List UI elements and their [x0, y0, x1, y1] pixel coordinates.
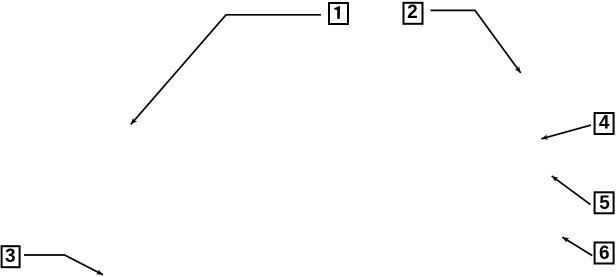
- callout box 1: [329, 3, 348, 24]
- svg-text:5: 5: [599, 193, 610, 214]
- svg-text:4: 4: [599, 113, 610, 134]
- callout arrow 3: [24, 255, 103, 275]
- callout arrow 2: [431, 10, 521, 73]
- svg-text:6: 6: [599, 243, 610, 264]
- callout arrow 1: [131, 15, 321, 125]
- callout arrow 6: [562, 237, 592, 256]
- callout box 4: [595, 113, 614, 134]
- callout box 3: [2, 246, 20, 267]
- callout arrow 5: [552, 176, 591, 205]
- svg-text:3: 3: [5, 246, 16, 267]
- callout box 6: [595, 243, 614, 265]
- callout box 2: [404, 2, 423, 24]
- callout arrow 4: [541, 125, 591, 139]
- svg-text:2: 2: [407, 2, 418, 23]
- callout box 5: [595, 192, 614, 214]
